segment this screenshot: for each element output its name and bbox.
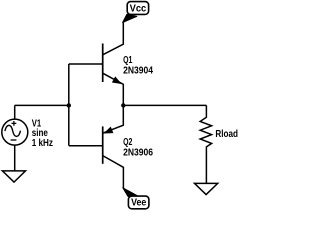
svg-text:Q1: Q1 xyxy=(123,55,133,66)
transistor Q1 base bar xyxy=(102,44,104,83)
wire V1 bottom xyxy=(14,145,16,170)
transistor Q2 base bar xyxy=(102,126,104,163)
Vee wedge connector xyxy=(123,188,139,197)
transistor Q2 emitter lead xyxy=(103,105,124,133)
svg-text:Rload: Rload xyxy=(215,129,238,140)
svg-text:Vee: Vee xyxy=(131,198,147,209)
ground right xyxy=(195,183,218,194)
Vcc wedge connector xyxy=(123,14,137,22)
Vee port box xyxy=(128,196,149,209)
output rail wire xyxy=(123,104,206,106)
svg-text:2N3906: 2N3906 xyxy=(123,148,153,159)
V1 sine glyph xyxy=(5,125,21,136)
junction dot output xyxy=(121,103,125,107)
V1 minus sign xyxy=(11,139,17,141)
Q1 emitter arrow xyxy=(112,77,120,84)
transistor Q1 emitter lead xyxy=(103,73,124,105)
svg-text:2N3904: 2N3904 xyxy=(123,66,153,77)
transistor Q2 collector lead xyxy=(103,156,124,189)
ground left xyxy=(2,171,25,182)
transistor Q1 base wire xyxy=(69,63,103,65)
transistor Q1 collector lead xyxy=(103,23,124,55)
svg-text:1 kHz: 1 kHz xyxy=(32,138,53,149)
wire V1 top xyxy=(14,105,16,119)
Vcc port box xyxy=(127,2,148,15)
base rail wire xyxy=(68,64,70,146)
V1 plus sign xyxy=(12,121,17,126)
wire V1 to base rail xyxy=(15,104,69,106)
svg-text:Q2: Q2 xyxy=(123,137,133,148)
svg-text:Vcc: Vcc xyxy=(130,4,147,15)
voltage source V1 circle xyxy=(2,119,28,145)
resistor Rload xyxy=(200,105,211,183)
transistor Q2 base wire xyxy=(69,145,103,147)
Q2 emitter arrow xyxy=(104,127,113,133)
junction dot input xyxy=(67,103,71,107)
